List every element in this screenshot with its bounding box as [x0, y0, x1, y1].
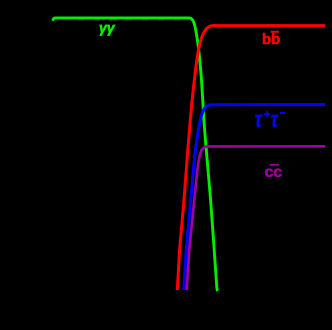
curve cc-bar (purple): [187, 146, 326, 290]
svg-text:bb: bb: [262, 31, 280, 48]
curve bb-bar (red): [177, 26, 325, 290]
svg-text:τ: τ: [255, 107, 262, 132]
overline of bb-bar: [271, 31, 279, 33]
svg-text:+: +: [264, 109, 270, 121]
svg-text:cc: cc: [265, 164, 283, 181]
svg-text:τ: τ: [271, 107, 278, 132]
faint dark-green fringe under gamma-gamma line: [78, 19, 188, 21]
overline of cc-bar: [270, 164, 280, 166]
curve tau+tau- (blue): [184, 105, 325, 290]
curve gamma-gamma (green): [53, 18, 218, 291]
svg-text:γγ: γγ: [99, 20, 116, 36]
